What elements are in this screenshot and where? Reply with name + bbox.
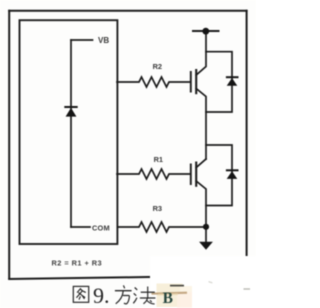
svg-text:R1: R1 — [154, 155, 163, 164]
svg-text:R2 = R1 + R3: R2 = R1 + R3 — [52, 258, 103, 267]
svg-text:R3: R3 — [153, 204, 162, 213]
svg-text:B: B — [163, 290, 173, 307]
svg-text:9.: 9. — [93, 283, 110, 308]
svg-text:R2: R2 — [153, 62, 162, 71]
svg-text:COM: COM — [92, 224, 110, 233]
svg-text:VB: VB — [98, 36, 109, 45]
